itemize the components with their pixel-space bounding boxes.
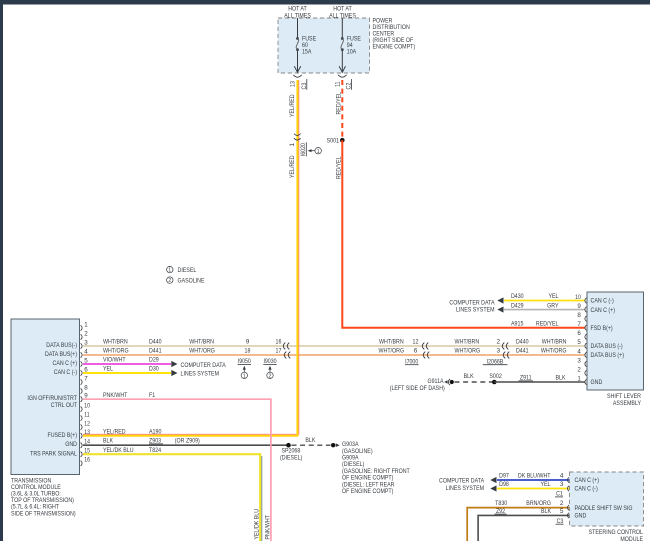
svg-text:12: 12 bbox=[84, 421, 90, 428]
legend note 1 DIESEL bbox=[167, 266, 197, 274]
svg-text:2: 2 bbox=[560, 500, 564, 507]
svg-text:10A: 10A bbox=[347, 49, 357, 56]
svg-text:A190: A190 bbox=[149, 428, 162, 435]
svg-text:D441: D441 bbox=[516, 348, 529, 355]
svg-text:WHT/ORG: WHT/ORG bbox=[455, 348, 481, 355]
svg-text:9: 9 bbox=[577, 303, 581, 310]
wire labels D430 YEL pin 10 bbox=[511, 293, 559, 300]
svg-text:COMPUTER DATA: COMPUTER DATA bbox=[439, 478, 485, 485]
svg-text:2: 2 bbox=[577, 366, 581, 373]
svg-text:CAN C (-): CAN C (-) bbox=[575, 486, 598, 493]
inline connector I2066B on WHT/ORG bbox=[503, 352, 509, 359]
wire BRN/ORG T830 paddle shift switch signal bbox=[467, 508, 569, 541]
svg-text:GASOLINE: GASOLINE bbox=[178, 278, 206, 285]
svg-text:RED/YEL: RED/YEL bbox=[336, 156, 343, 179]
svg-text:BLK: BLK bbox=[305, 437, 316, 444]
svg-text:3: 3 bbox=[84, 339, 88, 346]
splice S002 bbox=[489, 373, 502, 385]
connector C3 label (steering) bbox=[556, 518, 564, 525]
power distribution center label bbox=[373, 17, 416, 50]
svg-text:A915: A915 bbox=[511, 320, 524, 327]
shift lever assembly box bbox=[587, 292, 644, 390]
shift lever pin numbers bbox=[575, 294, 581, 383]
wire PNK/WHT F1 ign off/run/strt bbox=[83, 399, 271, 541]
svg-text:CAN C (+): CAN C (+) bbox=[591, 307, 616, 314]
wire labels T830 BRN/ORG pin 2 bbox=[495, 500, 564, 507]
connector arc below fuse 60 bbox=[293, 75, 301, 77]
svg-text:16: 16 bbox=[84, 457, 90, 464]
wire labels D98 YEL pin 3 bbox=[499, 481, 564, 488]
connector C2 label bbox=[346, 79, 353, 90]
svg-text:DATA BUS(-): DATA BUS(-) bbox=[46, 342, 77, 349]
wire labels WHT/BRN D440 at TCM bbox=[103, 339, 162, 346]
svg-text:WHT/BRN: WHT/BRN bbox=[542, 339, 567, 346]
svg-text:LINES SYSTEM: LINES SYSTEM bbox=[181, 370, 220, 377]
svg-text:BRN/ORG: BRN/ORG bbox=[526, 500, 551, 507]
note callout 1 (diesel) at I6020 bbox=[308, 148, 322, 155]
svg-text:YEL: YEL bbox=[103, 366, 113, 373]
svg-text:FUSED B(+): FUSED B(+) bbox=[48, 432, 78, 439]
legend note 2 GASOLINE bbox=[167, 277, 205, 285]
svg-text:4: 4 bbox=[577, 348, 581, 355]
wire RED/YEL solid segment to shift lever assembly bbox=[342, 140, 585, 328]
svg-text:PNK/WHT: PNK/WHT bbox=[103, 392, 127, 399]
wire labels D440 WHT/BRN pin 5 at shift lever bbox=[516, 339, 567, 346]
svg-text:S001: S001 bbox=[327, 138, 340, 145]
wire fuse 60 feed bbox=[297, 18, 299, 38]
svg-text:6: 6 bbox=[84, 366, 88, 373]
wire label WHT/ORG with pin 3 at I2066B bbox=[455, 348, 501, 355]
svg-text:15: 15 bbox=[84, 448, 90, 455]
wire fuse 60 output with arrowhead bbox=[294, 50, 300, 72]
svg-text:D430: D430 bbox=[511, 293, 524, 300]
svg-text:6: 6 bbox=[577, 330, 581, 337]
svg-text:D30: D30 bbox=[149, 366, 159, 373]
svg-text:GND: GND bbox=[591, 379, 603, 386]
svg-text:18: 18 bbox=[245, 348, 251, 355]
wire labels YEL/DK BLU T824 bbox=[103, 447, 161, 454]
inline connector I9050/I9030 on WHT/ORG bbox=[284, 352, 290, 359]
svg-text:BLK: BLK bbox=[464, 373, 475, 380]
inline connector I2066B on WHT/BRN bbox=[502, 343, 508, 350]
svg-text:GRY: GRY bbox=[547, 302, 559, 309]
svg-text:D97: D97 bbox=[499, 473, 509, 480]
svg-text:CAN C (+): CAN C (+) bbox=[53, 360, 78, 367]
svg-text:COMPUTER DATA: COMPUTER DATA bbox=[181, 362, 227, 369]
svg-text:WHT/ORG: WHT/ORG bbox=[541, 348, 567, 355]
svg-text:GND: GND bbox=[65, 441, 77, 448]
svg-text:WHT/BRN: WHT/BRN bbox=[189, 339, 214, 346]
wire labels BLK Z903 (OR Z909) bbox=[103, 438, 200, 445]
wire YEL/DK BLU T824 trs park signal bbox=[83, 454, 262, 541]
wire label WHT/BRN with pin 12 at I7000 bbox=[379, 339, 419, 346]
wire DK BLU/WHT D97 CAN C (+) bbox=[490, 477, 569, 483]
wire labels YEL D30 bbox=[103, 366, 159, 373]
svg-text:BLK: BLK bbox=[103, 438, 114, 445]
svg-text:STEERING CONTROL: STEERING CONTROL bbox=[589, 529, 644, 536]
TCM pin numbers 1-16 bbox=[84, 321, 90, 463]
wire labels D441 WHT/ORG pin 4 at shift lever bbox=[516, 348, 567, 355]
svg-text:ENGINE COMPT): ENGINE COMPT) bbox=[373, 44, 416, 51]
inline connector I7000 on WHT/ORG bbox=[423, 352, 429, 359]
svg-text:1: 1 bbox=[317, 149, 320, 155]
wire labels PNK/WHT F1 bbox=[103, 392, 156, 399]
steering control module label bbox=[589, 529, 644, 541]
svg-text:5: 5 bbox=[560, 508, 564, 515]
svg-text:RED/YEL: RED/YEL bbox=[336, 92, 343, 115]
svg-text:MODULE: MODULE bbox=[620, 536, 643, 541]
transmission control module label bbox=[11, 477, 76, 517]
shift lever internal pin labels bbox=[591, 298, 625, 387]
svg-text:DATA BUS(+): DATA BUS(+) bbox=[45, 351, 77, 358]
inline connector I9050/I9030 on WHT/BRN bbox=[283, 343, 289, 350]
svg-text:OF ENGINE COMPT): OF ENGINE COMPT) bbox=[342, 488, 393, 495]
svg-text:DATA BUS (-): DATA BUS (-) bbox=[591, 343, 623, 350]
inline connector I6020 on YEL/RED wire bbox=[294, 134, 301, 141]
wire VIO/WHT D29 CAN C (+) bbox=[83, 361, 178, 367]
note callout 2 arrow to I9030 bbox=[267, 366, 273, 380]
wire WHT/ORG data bus (+) D441 bbox=[83, 354, 586, 356]
svg-text:2: 2 bbox=[497, 339, 501, 346]
svg-text:LINES SYSTEM: LINES SYSTEM bbox=[456, 307, 495, 314]
svg-text:BLK: BLK bbox=[541, 508, 552, 515]
svg-text:D441: D441 bbox=[149, 348, 162, 355]
computer data lines system label (shift lever) bbox=[449, 299, 495, 313]
svg-text:TRS PARK SIGNAL: TRS PARK SIGNAL bbox=[30, 451, 77, 458]
svg-text:10: 10 bbox=[84, 403, 90, 410]
svg-text:DK BLU/WHT: DK BLU/WHT bbox=[518, 473, 551, 480]
svg-text:COMPUTER DATA: COMPUTER DATA bbox=[449, 299, 495, 306]
svg-text:5: 5 bbox=[577, 339, 581, 346]
svg-text:WHT/BRN: WHT/BRN bbox=[103, 339, 128, 346]
wire YEL D98 CAN C (-) bbox=[490, 485, 569, 491]
svg-text:F1: F1 bbox=[149, 392, 156, 399]
svg-text:DIESEL: DIESEL bbox=[178, 267, 197, 274]
shift lever assembly label bbox=[607, 393, 642, 407]
wire labels WHT/ORG D441 at TCM bbox=[103, 348, 162, 355]
svg-text:15A: 15A bbox=[302, 49, 312, 56]
ground G911A symbol bbox=[444, 379, 454, 385]
svg-text:YEL/DK BLU: YEL/DK BLU bbox=[103, 447, 134, 454]
svg-text:D440: D440 bbox=[516, 339, 529, 346]
svg-text:16: 16 bbox=[276, 339, 282, 346]
wire BLK Z911 to shift lever GND bbox=[494, 381, 585, 383]
svg-text:1: 1 bbox=[84, 321, 88, 328]
connector arc below fuse 94 bbox=[338, 75, 346, 77]
svg-text:FSD B(+): FSD B(+) bbox=[591, 325, 613, 332]
connector I2066B label bbox=[483, 358, 508, 365]
page top border bbox=[0, 0, 650, 5]
TCM pin connector arcs 1-16 bbox=[81, 325, 83, 466]
transmission control module box bbox=[11, 319, 80, 475]
wire BLK Z92 ground bbox=[478, 515, 569, 541]
svg-text:14: 14 bbox=[84, 439, 90, 446]
svg-text:YEL/DK BLU: YEL/DK BLU bbox=[254, 509, 261, 540]
svg-text:11: 11 bbox=[84, 412, 90, 419]
svg-text:LINES SYSTEM: LINES SYSTEM bbox=[446, 485, 485, 492]
svg-text:7: 7 bbox=[84, 375, 88, 382]
svg-text:ASSEMBLY: ASSEMBLY bbox=[613, 400, 642, 407]
ground G903A label bbox=[342, 441, 410, 495]
HOT AT ALL TIMES label (left) bbox=[284, 6, 311, 20]
connector I7000 label bbox=[405, 358, 419, 365]
svg-text:1: 1 bbox=[243, 374, 246, 380]
svg-text:(LEFT SIDE OF DASH): (LEFT SIDE OF DASH) bbox=[390, 385, 445, 392]
svg-text:WHT/ORG: WHT/ORG bbox=[189, 348, 215, 355]
svg-text:WHT/BRN: WHT/BRN bbox=[455, 339, 480, 346]
svg-text:1: 1 bbox=[168, 268, 171, 274]
wire labels A915 RED/YEL pin 7 bbox=[511, 320, 559, 327]
page left border bbox=[0, 0, 3, 541]
svg-text:D440: D440 bbox=[149, 339, 162, 346]
svg-text:3: 3 bbox=[577, 357, 581, 364]
steering module pin connector arcs bbox=[567, 477, 569, 518]
power distribution center box bbox=[278, 18, 370, 73]
svg-text:DATA BUS (+): DATA BUS (+) bbox=[591, 352, 625, 359]
steering control module box bbox=[570, 472, 644, 526]
svg-text:PADDLE SHIFT SW SIG: PADDLE SHIFT SW SIG bbox=[575, 505, 633, 512]
wire YEL D30 CAN C (-) bbox=[83, 370, 178, 376]
TCM internal pin labels bbox=[27, 342, 77, 458]
svg-text:SHIFT LEVER: SHIFT LEVER bbox=[607, 393, 641, 400]
wire RED/YEL dashed segment from fuse 94 bbox=[341, 80, 343, 140]
svg-text:D98: D98 bbox=[499, 481, 509, 488]
svg-text:GND: GND bbox=[575, 513, 587, 520]
svg-text:(DIESEL): (DIESEL) bbox=[280, 455, 302, 462]
svg-text:2: 2 bbox=[84, 330, 88, 337]
svg-text:11: 11 bbox=[334, 81, 341, 87]
svg-text:(OR Z909): (OR Z909) bbox=[175, 438, 200, 445]
svg-text:YEL: YEL bbox=[549, 293, 559, 300]
svg-text:CAN C (-): CAN C (-) bbox=[54, 369, 77, 376]
splice SP2068 bbox=[280, 443, 302, 462]
svg-text:8: 8 bbox=[84, 384, 88, 391]
wire YEL D430 CAN C (-) bbox=[497, 297, 585, 303]
svg-text:3: 3 bbox=[497, 348, 501, 355]
connector I6020 label bbox=[300, 142, 307, 156]
svg-text:1: 1 bbox=[577, 375, 581, 382]
svg-text:3: 3 bbox=[560, 481, 564, 488]
note callout 1 arrow to I9050 bbox=[241, 366, 247, 380]
svg-text:10: 10 bbox=[575, 294, 581, 301]
connector C1 label bbox=[555, 491, 563, 498]
wire label WHT/BRN mid with pins 9 and 16 bbox=[189, 339, 281, 346]
wire labels Z92 BLK pin 5 bbox=[495, 508, 564, 515]
wire YEL/RED vertical from fuse 60 bbox=[83, 80, 299, 436]
svg-text:13: 13 bbox=[290, 81, 297, 87]
wire labels Z911 BLK pin 1 bbox=[519, 375, 567, 382]
svg-text:SIDE OF TRANSMISSION): SIDE OF TRANSMISSION) bbox=[11, 510, 76, 517]
wire GRY D429 CAN C (+) bbox=[497, 306, 585, 312]
svg-text:6: 6 bbox=[414, 348, 418, 355]
wire fuse 94 output with arrowhead bbox=[339, 50, 345, 72]
svg-text:CAN C (+): CAN C (+) bbox=[575, 477, 600, 484]
connector I9030 label bbox=[263, 358, 277, 365]
wire label WHT/ORG mid with pins 18 and 17 bbox=[189, 348, 281, 355]
svg-text:T824: T824 bbox=[149, 447, 161, 454]
splice S001 bbox=[327, 138, 345, 145]
svg-text:4: 4 bbox=[84, 348, 88, 355]
svg-text:9: 9 bbox=[84, 393, 88, 400]
computer data lines system label (TCM) bbox=[181, 362, 227, 377]
steering module internal pin labels bbox=[575, 477, 633, 519]
svg-text:13: 13 bbox=[84, 429, 90, 436]
svg-text:YEL/RED: YEL/RED bbox=[289, 155, 296, 178]
wire WHT/BRN data bus (-) D440 bbox=[83, 345, 586, 347]
HOT AT ALL TIMES label (right) bbox=[329, 6, 356, 20]
svg-text:RED/YEL: RED/YEL bbox=[536, 320, 559, 327]
wire labels VIO/WHT D29 bbox=[103, 357, 159, 364]
inline connector I7000 on WHT/BRN bbox=[422, 343, 428, 350]
wire BLK dashed from G911A to S002 bbox=[455, 381, 493, 383]
wire label WHT/BRN with pin 2 at I2066B bbox=[455, 339, 501, 346]
wire BLK Z903 ground bbox=[83, 444, 289, 446]
svg-text:WHT/ORG: WHT/ORG bbox=[379, 348, 405, 355]
svg-text:CAN C (-): CAN C (-) bbox=[591, 298, 614, 305]
svg-text:17: 17 bbox=[276, 348, 282, 355]
svg-text:2: 2 bbox=[269, 374, 272, 380]
svg-text:12: 12 bbox=[413, 339, 419, 346]
computer data lines system label (steering) bbox=[439, 478, 485, 492]
svg-text:YEL: YEL bbox=[541, 481, 551, 488]
svg-text:VIO/WHT: VIO/WHT bbox=[103, 357, 126, 364]
svg-text:2: 2 bbox=[168, 278, 171, 284]
connector C3 label bbox=[301, 79, 308, 90]
wire labels YEL/RED A190 bbox=[103, 428, 162, 435]
wire label WHT/ORG with pin 6 at I7000 bbox=[379, 348, 418, 355]
svg-text:5: 5 bbox=[84, 357, 88, 364]
fuse 94 10A bbox=[341, 36, 362, 56]
connector I9050 label bbox=[238, 358, 252, 365]
svg-text:WHT/BRN: WHT/BRN bbox=[379, 339, 404, 346]
ground G903A symbol bbox=[331, 443, 340, 447]
wire labels D429 GRY pin 9 bbox=[511, 302, 559, 309]
svg-text:YEL/RED: YEL/RED bbox=[103, 428, 126, 435]
svg-text:D29: D29 bbox=[149, 357, 159, 364]
fuse 60 15A bbox=[296, 36, 317, 56]
svg-text:8: 8 bbox=[577, 312, 581, 319]
svg-text:BLK: BLK bbox=[556, 375, 567, 382]
wire BLK dashed to ground G903A bbox=[292, 444, 331, 446]
svg-text:YEL/RED: YEL/RED bbox=[289, 94, 296, 117]
svg-text:S002: S002 bbox=[489, 373, 502, 380]
svg-text:WHT/ORG: WHT/ORG bbox=[103, 348, 129, 355]
svg-text:1: 1 bbox=[289, 143, 296, 147]
svg-text:7: 7 bbox=[577, 321, 581, 328]
svg-text:9: 9 bbox=[246, 339, 250, 346]
wire labels D97 DK BLU/WHT pin 4 bbox=[499, 473, 564, 480]
svg-text:CTRL OUT: CTRL OUT bbox=[51, 402, 77, 409]
svg-text:T830: T830 bbox=[495, 500, 507, 507]
wire fuse 94 feed bbox=[341, 18, 343, 38]
svg-text:D429: D429 bbox=[511, 302, 524, 309]
ground G911A label bbox=[390, 378, 445, 392]
shift lever pin connector arcs 1-10 bbox=[585, 298, 587, 385]
svg-text:4: 4 bbox=[560, 473, 564, 480]
